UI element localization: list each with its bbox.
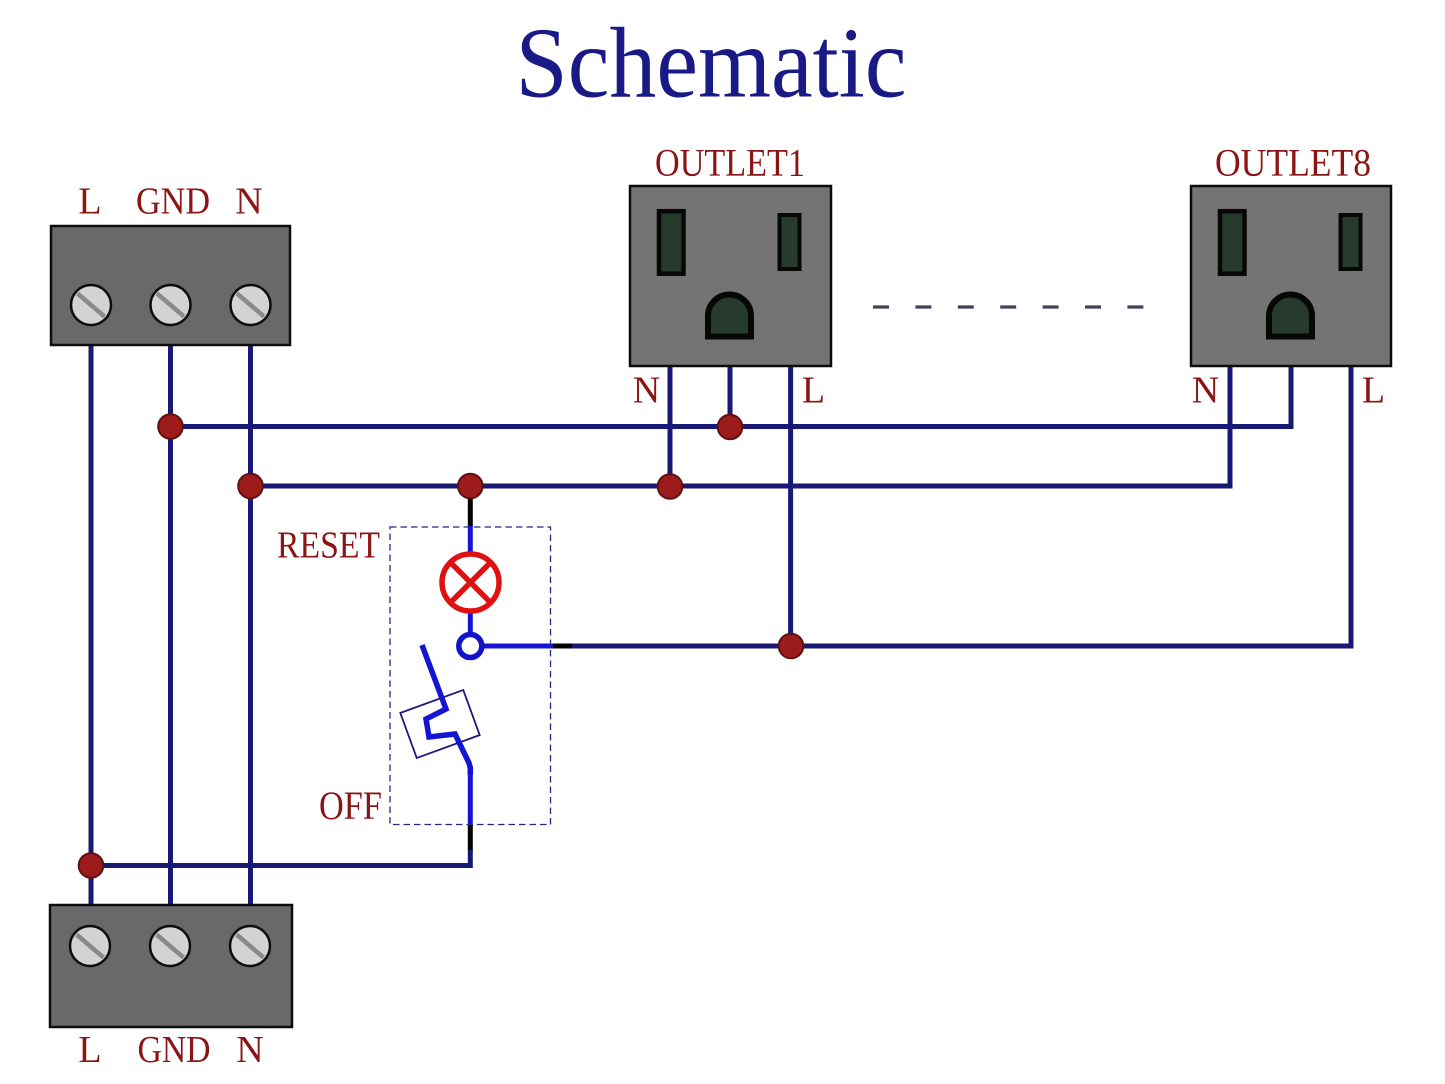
outlet OUTLET8 ground hole — [1269, 295, 1312, 337]
svg-text:L: L — [78, 1029, 101, 1071]
outlet OUTLET8 body — [1191, 186, 1391, 366]
svg-text:GND: GND — [138, 1029, 211, 1071]
outlet OUTLET8 neutral slot — [1220, 211, 1245, 274]
outlet OUTLET1 ground hole — [708, 295, 751, 337]
svg-text:L: L — [78, 181, 101, 223]
wire blue segment from switch pivot to dashed box edge — [482, 644, 553, 649]
svg-text:L: L — [802, 370, 825, 412]
wire black segment below dashed box — [468, 824, 473, 851]
wire GND bus horizontal to outlet ground pins — [171, 366, 1292, 427]
svg-text:OUTLET1: OUTLET1 — [655, 142, 805, 185]
wire N bus horizontal to outlet N pins — [251, 366, 1231, 486]
outlet OUTLET1 body — [630, 186, 831, 366]
wire outlet1 L pin down to switched-line bus — [788, 366, 793, 646]
dashed enclosure of reset switch S1 — [390, 527, 551, 825]
switch S1 pivot contact circle — [459, 635, 482, 658]
wire black drop from N bus junction into dashed box — [468, 487, 473, 527]
junction dot outlet1 L pin on switched-line bus — [779, 634, 804, 659]
svg-text:RESET: RESET — [277, 525, 380, 567]
outlet OUTLET1 neutral slot — [659, 211, 684, 274]
svg-text:OFF: OFF — [319, 783, 382, 828]
terminal block TB2 (bottom output) — [50, 905, 292, 1027]
svg-text:N: N — [235, 181, 262, 223]
screw TB1-GND — [151, 285, 191, 325]
wire outlet8 L pin and switched-line bus horizontal — [571, 366, 1351, 646]
screw TB1-N — [231, 285, 271, 325]
wire N vertical from top terminal down to bottom terminal — [248, 340, 253, 910]
indicator lamp DS1 (circle with X) — [442, 554, 499, 611]
svg-text:N: N — [1192, 370, 1219, 412]
dashed separator between OUTLET1 and OUTLET8 — [873, 305, 1144, 308]
screw TB2-GND — [150, 926, 190, 966]
wire GND vertical from top terminal down to bottom terminal — [168, 340, 173, 910]
switch S1 lever and heater zigzag — [422, 645, 470, 775]
wire bottom return bus from switch to L line — [91, 850, 470, 866]
wire L vertical from top terminal to bottom terminal — [89, 340, 94, 910]
junction dot N bus at terminal N wire — [238, 474, 263, 499]
outlet OUTLET8 live slot — [1341, 215, 1361, 269]
junction dot N bus at lamp branch — [458, 474, 483, 499]
screw TB2-N — [230, 926, 270, 966]
junction dot GND bus at terminal GND wire — [158, 414, 183, 439]
wire outlet1 N pin — [668, 366, 673, 486]
svg-text:OUTLET8: OUTLET8 — [1215, 142, 1371, 185]
wire black segment of switched-line bus at dashed box edge — [552, 644, 572, 649]
junction dot outlet1 N pin on N bus — [658, 474, 683, 499]
terminal block TB1 (top input) — [51, 226, 290, 345]
svg-text:N: N — [236, 1029, 263, 1071]
wire outlet1 ground pin — [728, 366, 733, 427]
wire blue drop from dashed box edge to lamp top — [468, 526, 473, 556]
junction dot bottom return bus at L wire — [79, 853, 104, 878]
svg-text:GND: GND — [136, 181, 210, 223]
wire blue segment lamp bottom to switch pivot — [468, 609, 473, 636]
svg-text:L: L — [1362, 370, 1385, 412]
thermal element box of switch S1 (tilted rectangle) — [400, 690, 479, 758]
svg-text:N: N — [633, 370, 660, 412]
screw TB1-L — [71, 285, 111, 325]
wire blue switch output drop inside dashed box — [468, 766, 473, 826]
svg-text:Schematic: Schematic — [516, 7, 907, 119]
outlet OUTLET1 live slot — [780, 215, 800, 269]
junction dot outlet1 ground pin on GND bus — [718, 415, 743, 440]
screw TB2-L — [70, 926, 110, 966]
